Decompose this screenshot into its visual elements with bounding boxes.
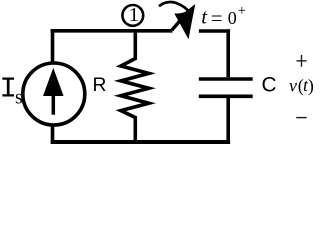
label plus: [297, 55, 307, 67]
wire right rail lower: [226, 98, 230, 144]
svg-text:1: 1: [129, 4, 139, 26]
wire left rail lower: [51, 126, 55, 144]
svg-text:C: C: [262, 73, 277, 96]
node 1: [122, 4, 143, 26]
wire bottom segment: [51, 140, 230, 144]
svg-text:s: s: [15, 87, 23, 109]
switch arc: [159, 2, 190, 12]
wire top right segment: [199, 29, 230, 33]
svg-text:v(t): v(t): [289, 75, 314, 96]
capacitor C: [199, 79, 253, 96]
wire top left segment: [51, 29, 173, 33]
switch arrowhead: [174, 4, 195, 39]
svg-text:R: R: [93, 75, 107, 96]
wire right rail upper: [226, 29, 230, 77]
switch blade: [172, 17, 184, 31]
wire left rail upper: [51, 29, 55, 63]
current source Is: [23, 63, 85, 125]
resistor R: [121, 29, 149, 144]
label minus: [296, 117, 307, 119]
